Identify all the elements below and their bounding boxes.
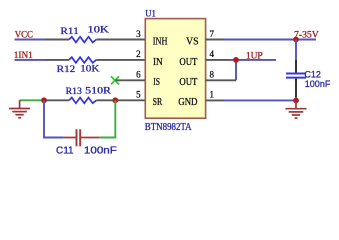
- wire VCC stub (blue): [15, 39, 46, 41]
- ground symbol left: [9, 100, 30, 117]
- wire C12 to ground junction (blue): [295, 97, 297, 100]
- wire C11 to junction B (green): [99, 100, 115, 137]
- svg-text:4: 4: [210, 49, 215, 59]
- pin 8 stub (gray): [206, 79, 236, 81]
- svg-text:IN: IN: [153, 57, 163, 68]
- svg-text:R11: R11: [60, 27, 79, 37]
- svg-text:1UP: 1UP: [246, 51, 263, 61]
- wire ground to junction A (green): [20, 99, 44, 101]
- wire 1IN1 stub (blue): [15, 59, 46, 61]
- svg-text:R13: R13: [66, 87, 83, 97]
- wire R11 to pin 3 (gray): [96, 39, 145, 41]
- svg-text:1: 1: [210, 90, 215, 100]
- resistor R11 zigzag: [69, 37, 96, 43]
- ground symbol right: [286, 100, 307, 118]
- svg-text:3: 3: [136, 29, 141, 39]
- wire R13 to pin 5 (gray): [96, 99, 145, 101]
- wire 7-35V junction down to C12 (blue): [295, 40, 297, 61]
- svg-text:SR: SR: [153, 97, 163, 108]
- op-amp U1 body (BTN8982TA half-bridge IC): [145, 19, 205, 119]
- svg-text:VCC: VCC: [15, 31, 33, 41]
- svg-text:C11: C11: [56, 144, 74, 156]
- svg-text:5: 5: [136, 90, 141, 100]
- wire pin 7 to 7-35V (blue): [224, 39, 316, 41]
- junction D dot: [233, 57, 239, 63]
- svg-text:C12: C12: [304, 69, 321, 79]
- wire VCC to R11 (gray): [45, 39, 69, 41]
- wire junction A down (blue): [44, 100, 63, 137]
- junction E dot: [293, 98, 299, 104]
- wire X to pin 6 (gray): [116, 79, 146, 81]
- wire 1IN1 to R12 (gray): [45, 59, 69, 61]
- no-connect X on pin 6: [111, 76, 119, 84]
- svg-text:BTN8982TA: BTN8982TA: [145, 122, 192, 133]
- junction B dot: [112, 97, 118, 103]
- wire junction A to R13 (gray): [44, 99, 69, 101]
- svg-text:IS: IS: [153, 77, 160, 88]
- svg-text:100nF: 100nF: [84, 144, 117, 156]
- svg-text:OUT: OUT: [179, 77, 197, 88]
- svg-text:INH: INH: [153, 37, 168, 48]
- resistor R13 zigzag: [69, 98, 96, 104]
- svg-text:100nF: 100nF: [305, 79, 331, 89]
- junction C dot: [293, 37, 299, 43]
- svg-text:GND: GND: [178, 97, 197, 108]
- svg-text:U1: U1: [145, 10, 156, 20]
- svg-text:8: 8: [210, 70, 215, 80]
- wire pin4 to pin8 vertical (blue): [235, 60, 237, 80]
- svg-text:R12: R12: [57, 65, 76, 75]
- resistor R12 zigzag: [69, 57, 96, 63]
- svg-text:6: 6: [136, 70, 141, 80]
- svg-text:1IN1: 1IN1: [14, 51, 33, 61]
- wire pin 4 to 1UP (blue): [229, 59, 276, 61]
- junction A dot: [41, 97, 47, 103]
- svg-text:OUT: OUT: [179, 57, 197, 68]
- svg-text:510R: 510R: [85, 86, 112, 96]
- svg-text:10K: 10K: [80, 65, 100, 75]
- svg-text:2: 2: [136, 49, 141, 59]
- capacitor C12: [286, 60, 306, 97]
- capacitor C11: [63, 129, 99, 146]
- svg-text:7: 7: [210, 29, 215, 39]
- pin 4 stub (gray): [206, 59, 229, 61]
- wire pin 1 to ground (blue): [224, 99, 296, 101]
- svg-text:VS: VS: [186, 37, 199, 48]
- pin 7 stub (gray): [206, 39, 224, 41]
- svg-text:10K: 10K: [88, 26, 110, 36]
- pin 1 stub (gray): [206, 99, 224, 101]
- wire R12 to pin 2 (gray): [96, 59, 145, 61]
